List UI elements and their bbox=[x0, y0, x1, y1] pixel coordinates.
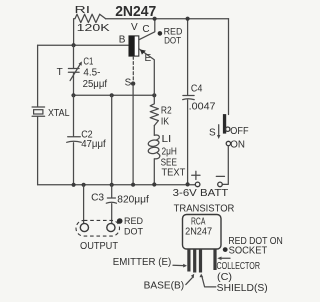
svg-text:C: C bbox=[142, 24, 149, 35]
wire: mid vertical x=111.7 bbox=[111, 95, 113, 184]
label red dot on socket bbox=[223, 236, 283, 257]
wire: switch ON to battery minus bbox=[222, 146, 228, 185]
wire: top rail y=18.7 from R1 to right corner bbox=[106, 18, 229, 20]
svg-text:OFF: OFF bbox=[230, 126, 248, 137]
svg-text:XTAL: XTAL bbox=[48, 108, 70, 119]
svg-text:C1: C1 bbox=[83, 56, 93, 67]
svg-text:4.5-: 4.5- bbox=[83, 68, 100, 79]
wire: shield dashed lead to S bbox=[132, 57, 134, 82]
pin S lead bbox=[199, 249, 202, 273]
wire: emitter node wire y=95.3 bbox=[74, 94, 155, 96]
svg-text:S: S bbox=[125, 78, 132, 89]
svg-text:TEXT: TEXT bbox=[162, 168, 186, 179]
svg-text:OUTPUT: OUTPUT bbox=[80, 241, 118, 252]
battery B1 3-6V terminals bbox=[173, 171, 229, 199]
node: junction collector/top rail bbox=[153, 17, 157, 21]
resistor R2 bbox=[150, 95, 172, 127]
label 2N247 title bbox=[115, 4, 156, 20]
switch S1 blade bbox=[209, 114, 249, 150]
output jack terminals bbox=[76, 220, 120, 252]
capacitor C4 bbox=[183, 19, 216, 185]
svg-text:ON: ON bbox=[230, 139, 245, 150]
svg-text:S: S bbox=[209, 128, 216, 139]
resistor R1 bbox=[74, 5, 111, 45]
capacitor C1 (trimmer) bbox=[57, 45, 108, 95]
capacitor C3 bbox=[91, 185, 149, 223]
svg-text:IK: IK bbox=[161, 117, 169, 128]
svg-text:TRANSISTOR: TRANSISTOR bbox=[174, 204, 235, 215]
node: junction output-left/bottom bbox=[82, 183, 86, 187]
node: junction C2/bottom bbox=[72, 183, 76, 187]
wire: right rail down to switch bbox=[228, 19, 230, 115]
crystal XTAL bbox=[32, 107, 70, 119]
pin E lead bbox=[187, 249, 190, 272]
label collector (C) bbox=[217, 257, 261, 284]
svg-text:3-6V BATT: 3-6V BATT bbox=[173, 188, 229, 199]
transistor package drawing bbox=[174, 204, 235, 249]
svg-text:.0047: .0047 bbox=[189, 102, 216, 113]
svg-text:EMITTER (E): EMITTER (E) bbox=[113, 257, 171, 268]
svg-text:T: T bbox=[57, 67, 63, 78]
svg-text:C4: C4 bbox=[191, 84, 203, 95]
node: junction mid vertical bbox=[110, 93, 114, 97]
wire: shield to ground bbox=[132, 85, 134, 185]
wire: emitter lead with arrow bbox=[139, 49, 155, 96]
transistor V1 2N247 bbox=[119, 22, 152, 64]
label shield (S) bbox=[200, 274, 268, 294]
wire: base wire y=45.2 bbox=[38, 44, 129, 46]
svg-text:SOCKET: SOCKET bbox=[229, 246, 268, 257]
svg-text:COLLECTOR: COLLECTOR bbox=[217, 261, 261, 272]
node S (shield terminal) bbox=[125, 78, 136, 89]
capacitor C2 bbox=[67, 95, 106, 184]
svg-text:B: B bbox=[119, 34, 126, 45]
svg-text:DOT: DOT bbox=[124, 226, 143, 237]
wire: left rail bbox=[37, 45, 39, 185]
svg-text:25μμf: 25μμf bbox=[83, 79, 108, 90]
svg-text:RI: RI bbox=[75, 5, 91, 16]
node: junction C4/top rail bbox=[186, 17, 190, 21]
red dot (output marking) bbox=[117, 216, 143, 237]
svg-text:2N247: 2N247 bbox=[115, 4, 156, 20]
svg-text:R2: R2 bbox=[161, 106, 172, 117]
node: junction emitter bbox=[152, 93, 156, 97]
pin C lead bbox=[213, 249, 216, 270]
node: junction L1/bottom bbox=[152, 182, 156, 186]
svg-text:C3: C3 bbox=[91, 193, 104, 204]
svg-text:SHIELD(S): SHIELD(S) bbox=[217, 283, 268, 294]
node: junction base/R1 bbox=[72, 43, 76, 47]
svg-text:(C): (C) bbox=[217, 272, 232, 283]
label emitter (E) bbox=[113, 257, 187, 268]
svg-text:820μμf: 820μμf bbox=[117, 195, 149, 206]
node: junction shield/bottom bbox=[131, 183, 135, 187]
inductor L1 bbox=[148, 126, 186, 185]
wire: bottom rail y=184.7 bbox=[38, 184, 195, 186]
svg-text:LI: LI bbox=[162, 134, 172, 145]
node: junction C4/bottom bbox=[186, 182, 190, 186]
svg-text:V: V bbox=[131, 22, 138, 33]
red dot (collector marking) bbox=[158, 26, 183, 46]
svg-text:47μμf: 47μμf bbox=[81, 139, 106, 150]
node: junction C1/C2 bbox=[71, 93, 75, 97]
svg-text:2N247: 2N247 bbox=[185, 227, 212, 238]
node: junction C3/bottom bbox=[110, 183, 114, 187]
pin B lead bbox=[193, 249, 196, 273]
wire: output left terminal lead bbox=[83, 185, 85, 223]
svg-text:DOT: DOT bbox=[164, 35, 181, 46]
wire: collector lead bbox=[139, 19, 155, 40]
svg-text:BASE(B): BASE(B) bbox=[144, 280, 185, 291]
svg-text:2μH: 2μH bbox=[162, 147, 177, 158]
label base (B) bbox=[144, 274, 195, 292]
svg-text:120K: 120K bbox=[77, 23, 110, 34]
